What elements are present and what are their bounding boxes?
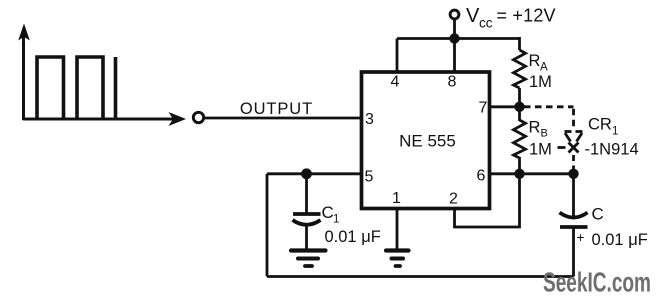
svg-text:4: 4 (391, 74, 400, 91)
wire: pin 4 stub (396, 39, 399, 73)
svg-text:OUTPUT: OUTPUT (240, 100, 313, 118)
svg-text:SeekIC.com: SeekIC.com (543, 267, 651, 298)
wire: rail to RA (518, 37, 521, 50)
svg-text:R: R (529, 119, 541, 137)
waveform vertical axis (22, 36, 25, 120)
node: Vcc junction dot (449, 33, 459, 43)
node: pin6/RB junction dot (514, 169, 524, 179)
resistor RA (514, 50, 526, 88)
ground under pin 1 (386, 251, 409, 267)
wire: pin 7 (490, 105, 520, 108)
wire: pin 6 to cap C node (490, 172, 574, 175)
node: cap C junction dot (568, 169, 578, 179)
svg-text:5: 5 (365, 169, 374, 186)
svg-text:1M: 1M (529, 73, 552, 91)
wire: left rail (266, 174, 269, 277)
output terminal circle (193, 112, 203, 122)
capacitor C1 bottom curved plate (293, 220, 321, 225)
capacitor C1 top plate (293, 212, 321, 216)
wire: pin 1 to ground (396, 209, 399, 249)
svg-text:R: R (529, 52, 541, 70)
wire: node to C1 (305, 174, 308, 214)
svg-text:A: A (540, 62, 548, 74)
wire: RA to node 7 (518, 88, 521, 107)
svg-text:0.01 μF: 0.01 μF (592, 231, 648, 249)
Vcc terminal circle (450, 10, 459, 19)
svg-text:-1N914: -1N914 (585, 141, 639, 159)
svg-text:1: 1 (392, 190, 401, 207)
resistor RB (514, 107, 526, 174)
diode CR1 (dashed) (558, 132, 583, 170)
waveform vertical axis arrowhead (18, 24, 30, 41)
svg-text:B: B (541, 128, 548, 140)
wire: output terminal to pin 3 (205, 117, 362, 120)
svg-text:= +12V: = +12V (497, 6, 556, 26)
op IC U1 NE 555 box (362, 72, 490, 209)
wire: pin 2 jog to pin 6 node (455, 174, 520, 227)
svg-text:cc: cc (479, 16, 493, 31)
svg-text:0.01 μF: 0.01 μF (325, 228, 381, 246)
svg-text:2: 2 (449, 191, 458, 208)
wire: pin 8 stub (453, 39, 456, 73)
svg-text:8: 8 (448, 74, 457, 91)
svg-text:C: C (322, 203, 334, 222)
wire: bottom rail (267, 275, 574, 278)
node: C1 junction dot (301, 168, 312, 179)
svg-text:1: 1 (333, 214, 339, 226)
svg-text:NE 555: NE 555 (399, 132, 456, 151)
ground under C1 (291, 251, 326, 267)
svg-text:3: 3 (365, 111, 374, 128)
wire: node to cap C (572, 174, 575, 217)
svg-text:7: 7 (479, 100, 488, 117)
capacitor C bottom plate (560, 225, 588, 229)
svg-text:C: C (592, 205, 604, 224)
svg-text:1: 1 (612, 126, 618, 138)
node: pin7/RA/RB junction dot (514, 102, 524, 112)
svg-text:6: 6 (477, 168, 486, 185)
svg-text:1M: 1M (529, 141, 552, 159)
wire: pin 5 (267, 172, 362, 175)
wire: top supply rail (397, 37, 520, 40)
svg-text:V: V (466, 5, 480, 27)
wire: dashed net node7 to CR1 (524, 107, 574, 129)
capacitor C top curved plate (560, 213, 588, 218)
svg-text:CR: CR (588, 116, 612, 134)
svg-text:+: + (577, 230, 585, 245)
wire: Vcc stub (453, 20, 456, 39)
waveform horizontal axis arrowhead (169, 112, 187, 126)
waveform horizontal axis (23, 118, 174, 121)
wire: cap C to bottom rail (572, 229, 575, 277)
wire: C1 to ground (305, 226, 308, 249)
waveform pulse train (37, 57, 116, 119)
